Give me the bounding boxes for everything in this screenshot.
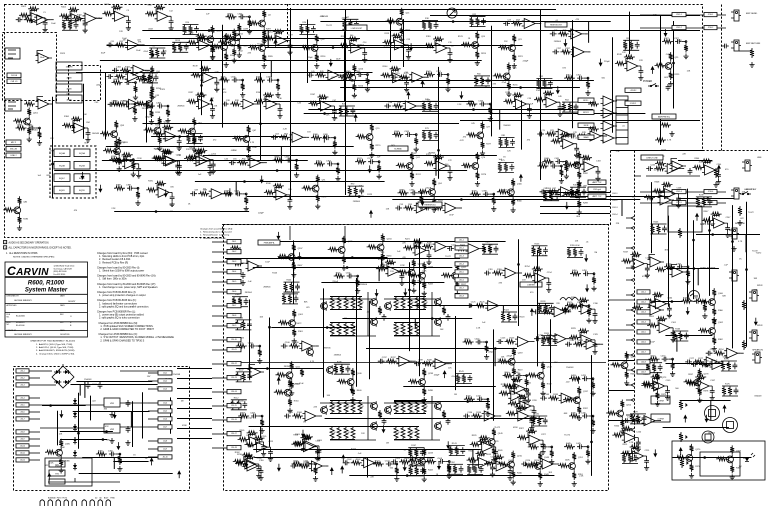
resistor R69b bbox=[414, 137, 418, 146]
resistor R8a bbox=[149, 48, 153, 58]
resistor R173c bbox=[641, 384, 652, 388]
resistor R84b bbox=[71, 117, 82, 121]
capacitor C comp bbox=[382, 418, 387, 425]
resistor R151a bbox=[572, 452, 576, 461]
op-amp U108 bbox=[303, 411, 320, 421]
op-amp U224 bbox=[584, 339, 601, 349]
resistor R57b bbox=[193, 150, 204, 154]
resistor R160a bbox=[712, 288, 716, 297]
wire bbox=[256, 345, 260, 347]
op-amp U203 bbox=[303, 441, 320, 451]
input label boxes bbox=[7, 73, 21, 78]
op-amp U115 bbox=[254, 442, 271, 452]
resistor R32a bbox=[111, 102, 122, 106]
resistor R46a bbox=[339, 106, 343, 116]
capacitor C80a bbox=[550, 164, 557, 169]
capacitor C22 bbox=[481, 18, 486, 25]
wire bbox=[330, 322, 355, 324]
op-amp U222 bbox=[553, 334, 570, 344]
capacitor C182 bbox=[64, 16, 71, 21]
resistor R103a bbox=[282, 294, 286, 304]
capacitor C121 bbox=[427, 252, 432, 259]
capacitor C181a bbox=[109, 452, 116, 457]
svg-text:J201-5: J201-5 bbox=[676, 202, 682, 204]
wire bbox=[455, 316, 457, 390]
capacitor C112 bbox=[242, 401, 247, 408]
wire bbox=[646, 362, 662, 364]
resistor R31b bbox=[134, 85, 138, 94]
transistor Q output B bbox=[371, 319, 378, 326]
transistor Q149 bbox=[488, 439, 495, 446]
resistor R152a bbox=[447, 464, 451, 474]
svg-text:AUDIO AS SECONDARY OPERATION.: AUDIO AS SECONDARY OPERATION. bbox=[9, 241, 50, 244]
transistor Q162 bbox=[709, 328, 716, 335]
resistor R206b bbox=[290, 282, 294, 292]
transistor Q output B bbox=[435, 319, 442, 326]
resistor R231b bbox=[356, 278, 360, 287]
capacitor C45 bbox=[307, 73, 314, 78]
resistor R36b bbox=[263, 93, 274, 97]
resistor R114a bbox=[291, 442, 302, 446]
capacitor C145a bbox=[577, 444, 584, 449]
resistor R98a bbox=[577, 180, 581, 189]
capacitor C106 bbox=[281, 344, 288, 349]
wire bbox=[467, 464, 483, 466]
svg-text:GND LIFT: GND LIFT bbox=[744, 189, 755, 191]
ground bbox=[315, 204, 320, 209]
resistor ladder R402 bbox=[344, 296, 348, 310]
resistor R145b bbox=[586, 449, 590, 458]
wire bbox=[741, 352, 744, 354]
resistor R31a bbox=[112, 81, 123, 85]
wire bbox=[403, 386, 496, 388]
resistor R167a bbox=[686, 382, 697, 386]
resistor R173b bbox=[656, 391, 660, 400]
svg-text:San Diego, CA 92128: San Diego, CA 92128 bbox=[54, 267, 72, 270]
svg-text:Q170: Q170 bbox=[695, 449, 701, 451]
capacitor C139 bbox=[522, 398, 527, 405]
svg-text:1M: 1M bbox=[594, 252, 597, 254]
resistor R149a bbox=[492, 428, 496, 437]
wire bbox=[147, 69, 150, 71]
DIRECT LINE label box bbox=[641, 155, 663, 160]
op-amp U95 bbox=[414, 203, 431, 213]
resistor ladder R402 bbox=[408, 296, 412, 310]
resistor R61c bbox=[178, 129, 189, 133]
resistor ladder R402 bbox=[344, 426, 348, 440]
capacitor C30 bbox=[16, 17, 23, 22]
ground bbox=[394, 476, 399, 481]
svg-text:2.2K: 2.2K bbox=[111, 208, 116, 210]
wire bbox=[331, 137, 335, 139]
PCB boundary: right jack panel divider bbox=[721, 5, 723, 151]
op-amp U242 bbox=[361, 458, 378, 468]
wire bbox=[312, 463, 316, 465]
ground bbox=[491, 206, 496, 211]
wire bbox=[367, 396, 369, 440]
resistor R184 bbox=[120, 68, 131, 72]
resistor R73a bbox=[422, 130, 426, 140]
resistor R185b bbox=[148, 73, 152, 83]
capacitor C222 bbox=[534, 336, 541, 341]
capacitor C122 bbox=[447, 246, 454, 251]
resistor R86a bbox=[264, 190, 275, 194]
power flag arrow bbox=[446, 445, 450, 449]
op-amp U209 bbox=[410, 457, 427, 467]
op-amp U190 bbox=[560, 139, 577, 149]
relay contact box K2 bbox=[54, 161, 70, 169]
wire bbox=[367, 292, 369, 336]
capacitor C35a bbox=[232, 78, 239, 83]
wire bbox=[562, 161, 566, 163]
ground bbox=[414, 147, 419, 152]
op-amp U228 bbox=[476, 458, 493, 468]
ground bbox=[549, 459, 554, 464]
power flag arrow bbox=[723, 405, 727, 409]
resistor R144a bbox=[484, 462, 495, 466]
resistor R115a bbox=[245, 443, 256, 447]
wire bbox=[419, 105, 422, 107]
resistor R179b bbox=[636, 414, 640, 424]
svg-text:1M: 1M bbox=[386, 443, 389, 445]
ground bbox=[411, 288, 416, 293]
input jack J1 bbox=[5, 48, 20, 59]
capacitor C40a bbox=[267, 78, 274, 83]
filter cap C601 bbox=[98, 382, 103, 389]
capacitor C247 bbox=[725, 225, 730, 232]
power flag arrow bbox=[98, 189, 102, 193]
op-amp U11 bbox=[125, 40, 142, 50]
capacitor C26 bbox=[635, 42, 640, 49]
svg-text:J30-3: J30-3 bbox=[232, 261, 237, 263]
ground bbox=[485, 411, 490, 416]
wire bbox=[422, 20, 438, 22]
op-amp U57 bbox=[194, 156, 211, 166]
ground bbox=[683, 54, 688, 59]
wire bbox=[249, 426, 412, 428]
transistor Q16 bbox=[311, 45, 318, 52]
power flag arrow bbox=[322, 135, 326, 139]
resistor R29c bbox=[655, 64, 666, 68]
wire bbox=[431, 292, 433, 336]
resistor emitter bbox=[378, 306, 382, 315]
resistor R4a bbox=[262, 10, 266, 19]
power flag arrow bbox=[81, 176, 85, 180]
capacitor C208a bbox=[438, 459, 445, 464]
wire bbox=[684, 266, 688, 268]
resistor R80a bbox=[537, 164, 548, 168]
op-amp U41 bbox=[658, 195, 675, 205]
svg-text:2N3904: 2N3904 bbox=[383, 47, 391, 49]
transistor Q101 bbox=[289, 320, 296, 327]
resistor R156a bbox=[570, 272, 581, 276]
capacitor C102 bbox=[244, 298, 249, 305]
capacitor C183a bbox=[157, 104, 164, 109]
op-amp U38 bbox=[240, 99, 257, 109]
resistor R201a bbox=[27, 108, 31, 117]
capacitor C120 bbox=[494, 246, 499, 253]
resistor R10b bbox=[189, 25, 193, 35]
resistor R187a bbox=[264, 36, 275, 40]
resistor R232b bbox=[385, 260, 396, 264]
svg-text:2. split graphic EQ to turbo c: 2. split graphic EQ to turbo connection bbox=[99, 317, 140, 320]
thermal breaker block bbox=[45, 458, 92, 486]
wire bbox=[673, 21, 675, 109]
transistor Q output A bbox=[371, 299, 378, 306]
wire bbox=[323, 288, 325, 397]
resistor R189c bbox=[223, 35, 234, 39]
wire bbox=[727, 223, 729, 225]
resistor R96 bbox=[432, 206, 443, 210]
wire bbox=[60, 439, 107, 441]
svg-text:12340 World Trade Drive: 12340 World Trade Drive bbox=[54, 265, 75, 268]
resistor R251b bbox=[630, 445, 641, 449]
op-amp U119 bbox=[503, 268, 520, 278]
wire bbox=[100, 60, 482, 62]
op-amp U171 bbox=[642, 416, 659, 426]
resistor R208b bbox=[447, 463, 451, 472]
bus resistor network RN1 bbox=[616, 96, 628, 144]
resistor R130a bbox=[569, 305, 580, 309]
capacitor C217 bbox=[552, 50, 559, 55]
resistor R10a bbox=[183, 25, 187, 35]
resistor R51b bbox=[586, 80, 590, 89]
svg-text:J30-17: J30-17 bbox=[231, 433, 237, 435]
power amp input stage label bbox=[258, 240, 280, 245]
wire bbox=[209, 161, 211, 163]
wire bbox=[732, 205, 734, 348]
resistor R51a bbox=[564, 76, 575, 80]
resistor R49a bbox=[534, 98, 545, 102]
resistor R42a bbox=[422, 101, 426, 111]
resistor R91c bbox=[302, 186, 313, 190]
svg-text:Changes from assembly Rev (R4): Changes from assembly Rev (R4): bbox=[200, 229, 233, 231]
op-amp U72 bbox=[434, 161, 451, 171]
svg-text:TL072: TL072 bbox=[756, 253, 763, 255]
wire bbox=[532, 245, 548, 247]
resistor R220b bbox=[517, 395, 528, 399]
pot RV60 bbox=[679, 400, 683, 410]
op-amp U36 bbox=[264, 99, 281, 109]
ERP RETURN jack J211 bbox=[734, 40, 739, 51]
resistor R33b bbox=[150, 109, 154, 118]
resistor R94b bbox=[432, 197, 436, 206]
svg-text:J10-8: J10-8 bbox=[20, 431, 24, 433]
ground bbox=[314, 63, 319, 68]
wire bbox=[604, 135, 607, 137]
capacitor C155 bbox=[579, 249, 584, 256]
power flag arrow bbox=[717, 165, 721, 169]
resistor R153b bbox=[538, 246, 542, 256]
resistor R163b bbox=[678, 331, 682, 341]
resistor R195b bbox=[117, 156, 121, 165]
resistor R301 bbox=[232, 262, 243, 266]
transistor Q15 bbox=[396, 18, 403, 25]
resistor R15a bbox=[400, 8, 404, 17]
svg-text:10uF: 10uF bbox=[101, 52, 106, 54]
ground bbox=[574, 153, 579, 158]
long bus wire bbox=[225, 258, 460, 260]
wire bbox=[236, 368, 323, 370]
resistor R131a bbox=[531, 416, 535, 426]
power flag arrow bbox=[276, 236, 280, 240]
capacitor C194 bbox=[582, 189, 587, 196]
wire bbox=[413, 360, 416, 362]
wire bbox=[678, 194, 680, 196]
resistor R75a bbox=[498, 162, 502, 172]
resistor ladder R400 bbox=[330, 296, 334, 310]
resistor R198a bbox=[113, 159, 124, 163]
capacitor C187 bbox=[288, 43, 293, 50]
resistor R118c bbox=[398, 270, 409, 274]
PCB boundary: power supply board (dashed box) bbox=[14, 367, 190, 491]
ground bbox=[685, 279, 690, 284]
wire bbox=[426, 76, 429, 78]
svg-text:TL072: TL072 bbox=[564, 434, 571, 436]
svg-text:J11-10: J11-10 bbox=[162, 456, 167, 458]
resistor ladder R401 bbox=[337, 322, 341, 336]
op-amp U144 bbox=[494, 461, 511, 471]
ground bbox=[332, 150, 337, 155]
resistor R60b bbox=[162, 125, 173, 129]
wire bbox=[264, 162, 267, 164]
capacitor C93a bbox=[411, 191, 418, 196]
ground bbox=[713, 182, 718, 187]
wire bbox=[384, 298, 436, 300]
vertical trunk wire bbox=[345, 10, 347, 195]
resistor R247a bbox=[702, 219, 713, 223]
resistor R213a bbox=[172, 42, 176, 52]
svg-text:J30-10: J30-10 bbox=[231, 339, 237, 341]
resistor R189b bbox=[237, 42, 241, 51]
capacitor C57 bbox=[208, 163, 213, 170]
resistor R89 bbox=[588, 102, 599, 106]
resistor R68b bbox=[333, 140, 337, 149]
op-amp U247 bbox=[711, 218, 728, 228]
edge pin labels mid power amp bbox=[455, 238, 468, 242]
svg-text:220pF: 220pF bbox=[523, 61, 529, 63]
wire bbox=[36, 127, 40, 129]
wire bbox=[356, 278, 358, 387]
wire bbox=[348, 185, 364, 187]
resistor R234a bbox=[381, 233, 385, 242]
capacitor C38 bbox=[222, 102, 229, 107]
resistor R114b bbox=[300, 436, 311, 440]
op-amp U161 bbox=[657, 323, 674, 333]
ground bbox=[291, 272, 296, 277]
transistor Q253 bbox=[621, 362, 628, 369]
resistor R55c bbox=[493, 74, 504, 78]
wire bbox=[585, 305, 589, 307]
wire bbox=[270, 447, 272, 449]
resistor R156b bbox=[592, 276, 596, 285]
ground bbox=[491, 457, 496, 462]
resistor R152b bbox=[453, 464, 457, 474]
power flag arrow bbox=[563, 43, 567, 47]
wire bbox=[666, 268, 719, 270]
capacitor C116 bbox=[259, 468, 264, 475]
resistor R169b bbox=[730, 464, 734, 473]
capacitor C115 bbox=[268, 449, 273, 456]
ground bbox=[529, 425, 534, 430]
resistor R7b bbox=[196, 34, 207, 38]
ground bbox=[526, 398, 531, 403]
op-amp U184 bbox=[131, 65, 148, 75]
wire bbox=[74, 478, 76, 482]
svg-text:SPKR: SPKR bbox=[757, 285, 763, 287]
resistor R73b bbox=[428, 130, 432, 140]
capacitor C250 bbox=[636, 440, 641, 447]
power flag arrow bbox=[329, 63, 333, 67]
power flag arrow bbox=[47, 473, 51, 477]
power flag arrow bbox=[350, 389, 354, 393]
op-amp U134 bbox=[515, 411, 532, 421]
transistor Q170 bbox=[686, 455, 693, 462]
op-amp U165 bbox=[651, 381, 668, 391]
ground bbox=[175, 170, 180, 175]
svg-text:J10-4: J10-4 bbox=[20, 397, 24, 399]
svg-text:1. Shrink from 100W to 80W ou: 1. Shrink from 100W to 80W output power bbox=[99, 270, 144, 273]
capacitor C18 bbox=[434, 22, 439, 29]
wire bbox=[409, 465, 425, 467]
capacitor C401 bbox=[688, 168, 693, 175]
wire bbox=[491, 26, 493, 137]
resistor R11 bbox=[115, 43, 126, 47]
svg-text:J30-13: J30-13 bbox=[231, 377, 237, 379]
ground bbox=[665, 395, 670, 400]
resistor R230 bbox=[422, 245, 433, 249]
transistor Q189 bbox=[234, 34, 241, 41]
wire bbox=[697, 269, 699, 286]
resistor R200b bbox=[196, 149, 207, 153]
jack J220 line out bbox=[745, 160, 750, 171]
capacitor C comp bbox=[446, 418, 451, 425]
svg-text:EQ5A: EQ5A bbox=[79, 152, 85, 155]
resistor R111a bbox=[290, 361, 294, 370]
svg-text:10/24/1999: 10/24/1999 bbox=[60, 334, 69, 336]
resistor R157a bbox=[621, 259, 632, 263]
speaker SP3 bbox=[702, 431, 714, 443]
wire bbox=[687, 189, 689, 301]
resistor R8b bbox=[155, 48, 159, 58]
resistor R420 bbox=[742, 300, 746, 310]
resistor R54a bbox=[562, 102, 566, 112]
op-amp U63 bbox=[290, 132, 307, 142]
gain block rectangles bbox=[56, 62, 82, 70]
wire bbox=[394, 400, 426, 402]
svg-text:3. Revised PCB to Rev (R): 3. Revised PCB to Rev (R) bbox=[99, 261, 128, 264]
jack J221 insert bbox=[732, 228, 737, 239]
ground bbox=[432, 207, 437, 212]
resistor R207b bbox=[292, 262, 296, 271]
power flag arrow bbox=[382, 429, 386, 433]
svg-text:47uF: 47uF bbox=[143, 51, 148, 53]
ground bbox=[644, 465, 649, 470]
capacitor C186 bbox=[108, 102, 115, 107]
wire bbox=[378, 462, 381, 464]
resistor R118a bbox=[412, 259, 416, 268]
resistor R110a bbox=[288, 379, 292, 388]
pot RV50 bbox=[680, 458, 684, 468]
resistor R205b bbox=[247, 431, 258, 435]
resistor R179a bbox=[630, 414, 634, 424]
op-amp U48 bbox=[403, 101, 420, 111]
wire bbox=[212, 160, 214, 162]
wire bbox=[178, 161, 180, 163]
transistor Q252 bbox=[617, 410, 624, 417]
capacitor C8 bbox=[161, 50, 166, 57]
resistor R82b bbox=[577, 170, 581, 179]
